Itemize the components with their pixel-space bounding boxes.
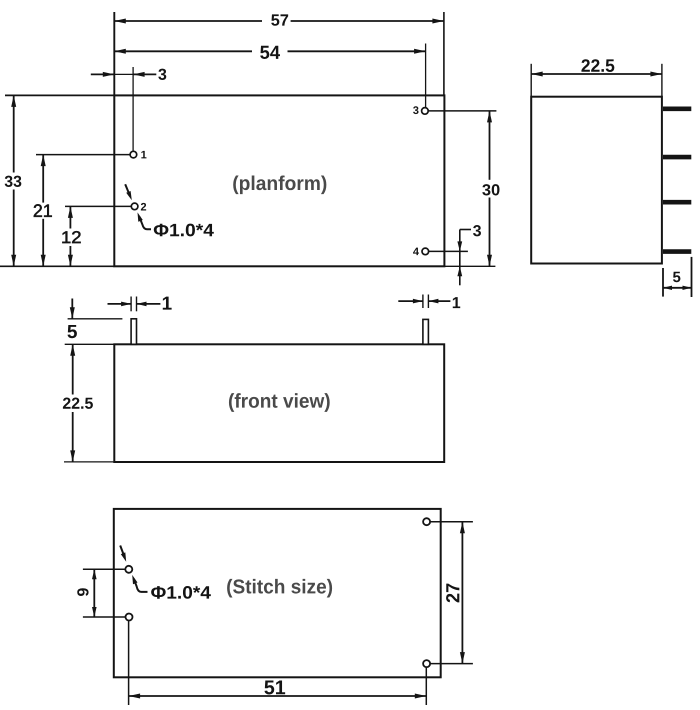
dimension 33 — [13, 95, 15, 172]
pin 2 label — [141, 203, 146, 211]
stitch size caption — [227, 579, 332, 598]
dimension 27 — [461, 522, 463, 664]
leader arrow above upper-left hole — [120, 546, 124, 556]
front view caption — [229, 393, 330, 412]
pin column extension (3 dim / pin1) — [132, 67, 134, 151]
dimension 22.5 (front) — [72, 344, 74, 394]
hole upper-left — [125, 566, 132, 573]
right edge extension up (57 dim) — [443, 12, 445, 95]
dimension 3 (pin offset from left edge) — [91, 73, 115, 75]
dimension 51 — [129, 695, 427, 697]
planform bottom edge extension right (30 dim) — [444, 265, 495, 267]
side view body — [531, 97, 662, 264]
side view pin 4 — [663, 249, 691, 254]
51 dim right extension (below bottom-right hole) — [425, 668, 427, 705]
dimension 1 (right pin width) — [422, 295, 424, 309]
pin 4 hole — [422, 248, 429, 255]
front view left pin — [131, 319, 136, 345]
planform caption — [233, 175, 326, 194]
54 dim extension (pin3 column) — [425, 44, 427, 108]
front body top edge extension left — [65, 343, 115, 345]
hole size label phi1.0*4 (planform) — [154, 224, 214, 237]
side view pin 2 — [663, 155, 691, 160]
dimension 21 — [42, 155, 44, 203]
leader from pin 2 to phi label — [138, 212, 143, 221]
dimension 22.5 (side) — [530, 64, 532, 97]
dimension 54 — [114, 50, 252, 52]
planform view outline — [114, 95, 444, 266]
side view pin 1 — [663, 107, 691, 112]
pin-top extension line — [68, 318, 123, 320]
stitch view outline — [114, 509, 441, 677]
pin 1 row extension line — [36, 154, 130, 156]
bottom-right hole extension line — [430, 663, 473, 665]
front view body — [114, 344, 444, 462]
front view right pin — [423, 319, 429, 344]
pin 1 hole — [130, 151, 137, 158]
pin 2 hole — [131, 203, 138, 210]
pin 3 row extension line — [428, 110, 496, 112]
dimension 30 — [489, 111, 491, 180]
pin 3 hole — [422, 108, 429, 115]
dimension 9 — [93, 569, 95, 617]
pin 3 label — [413, 106, 418, 114]
left edge extension up (57/54 dims) — [113, 12, 115, 95]
pin 1 label — [141, 151, 146, 159]
top-right hole extension line — [430, 521, 473, 523]
hole top-right — [423, 518, 430, 525]
hole size label phi1.0*4 (stitch) — [151, 586, 211, 599]
dimension 5 (side pin length) — [662, 268, 664, 297]
pin 2 row extension line — [65, 205, 131, 207]
pin 4 label — [413, 248, 419, 256]
lower-left hole extension line — [83, 616, 125, 618]
dimension 57 — [114, 20, 262, 22]
planform top edge extension to left (33 dim) — [5, 94, 114, 96]
dimension 3 (pin4 row to bottom edge) — [459, 230, 461, 286]
dimension 1 (left pin width) — [130, 297, 132, 312]
dimension 12 — [69, 206, 71, 228]
side view pin 3 — [663, 200, 691, 205]
51 dim left extension (below lower-left hole) — [128, 621, 130, 705]
leader arrow above pin 2 — [125, 184, 129, 194]
hole bottom-right — [423, 660, 430, 667]
upper-left hole extension line — [83, 568, 125, 570]
pin 4 row extension line — [429, 250, 468, 252]
hole lower-left — [126, 614, 133, 621]
front body bottom edge extension left — [64, 461, 114, 463]
planform bottom edge extension left — [0, 265, 114, 267]
leader from upper-left hole to phi label — [132, 575, 137, 584]
dimension 5 (pin height above body) — [71, 299, 73, 319]
